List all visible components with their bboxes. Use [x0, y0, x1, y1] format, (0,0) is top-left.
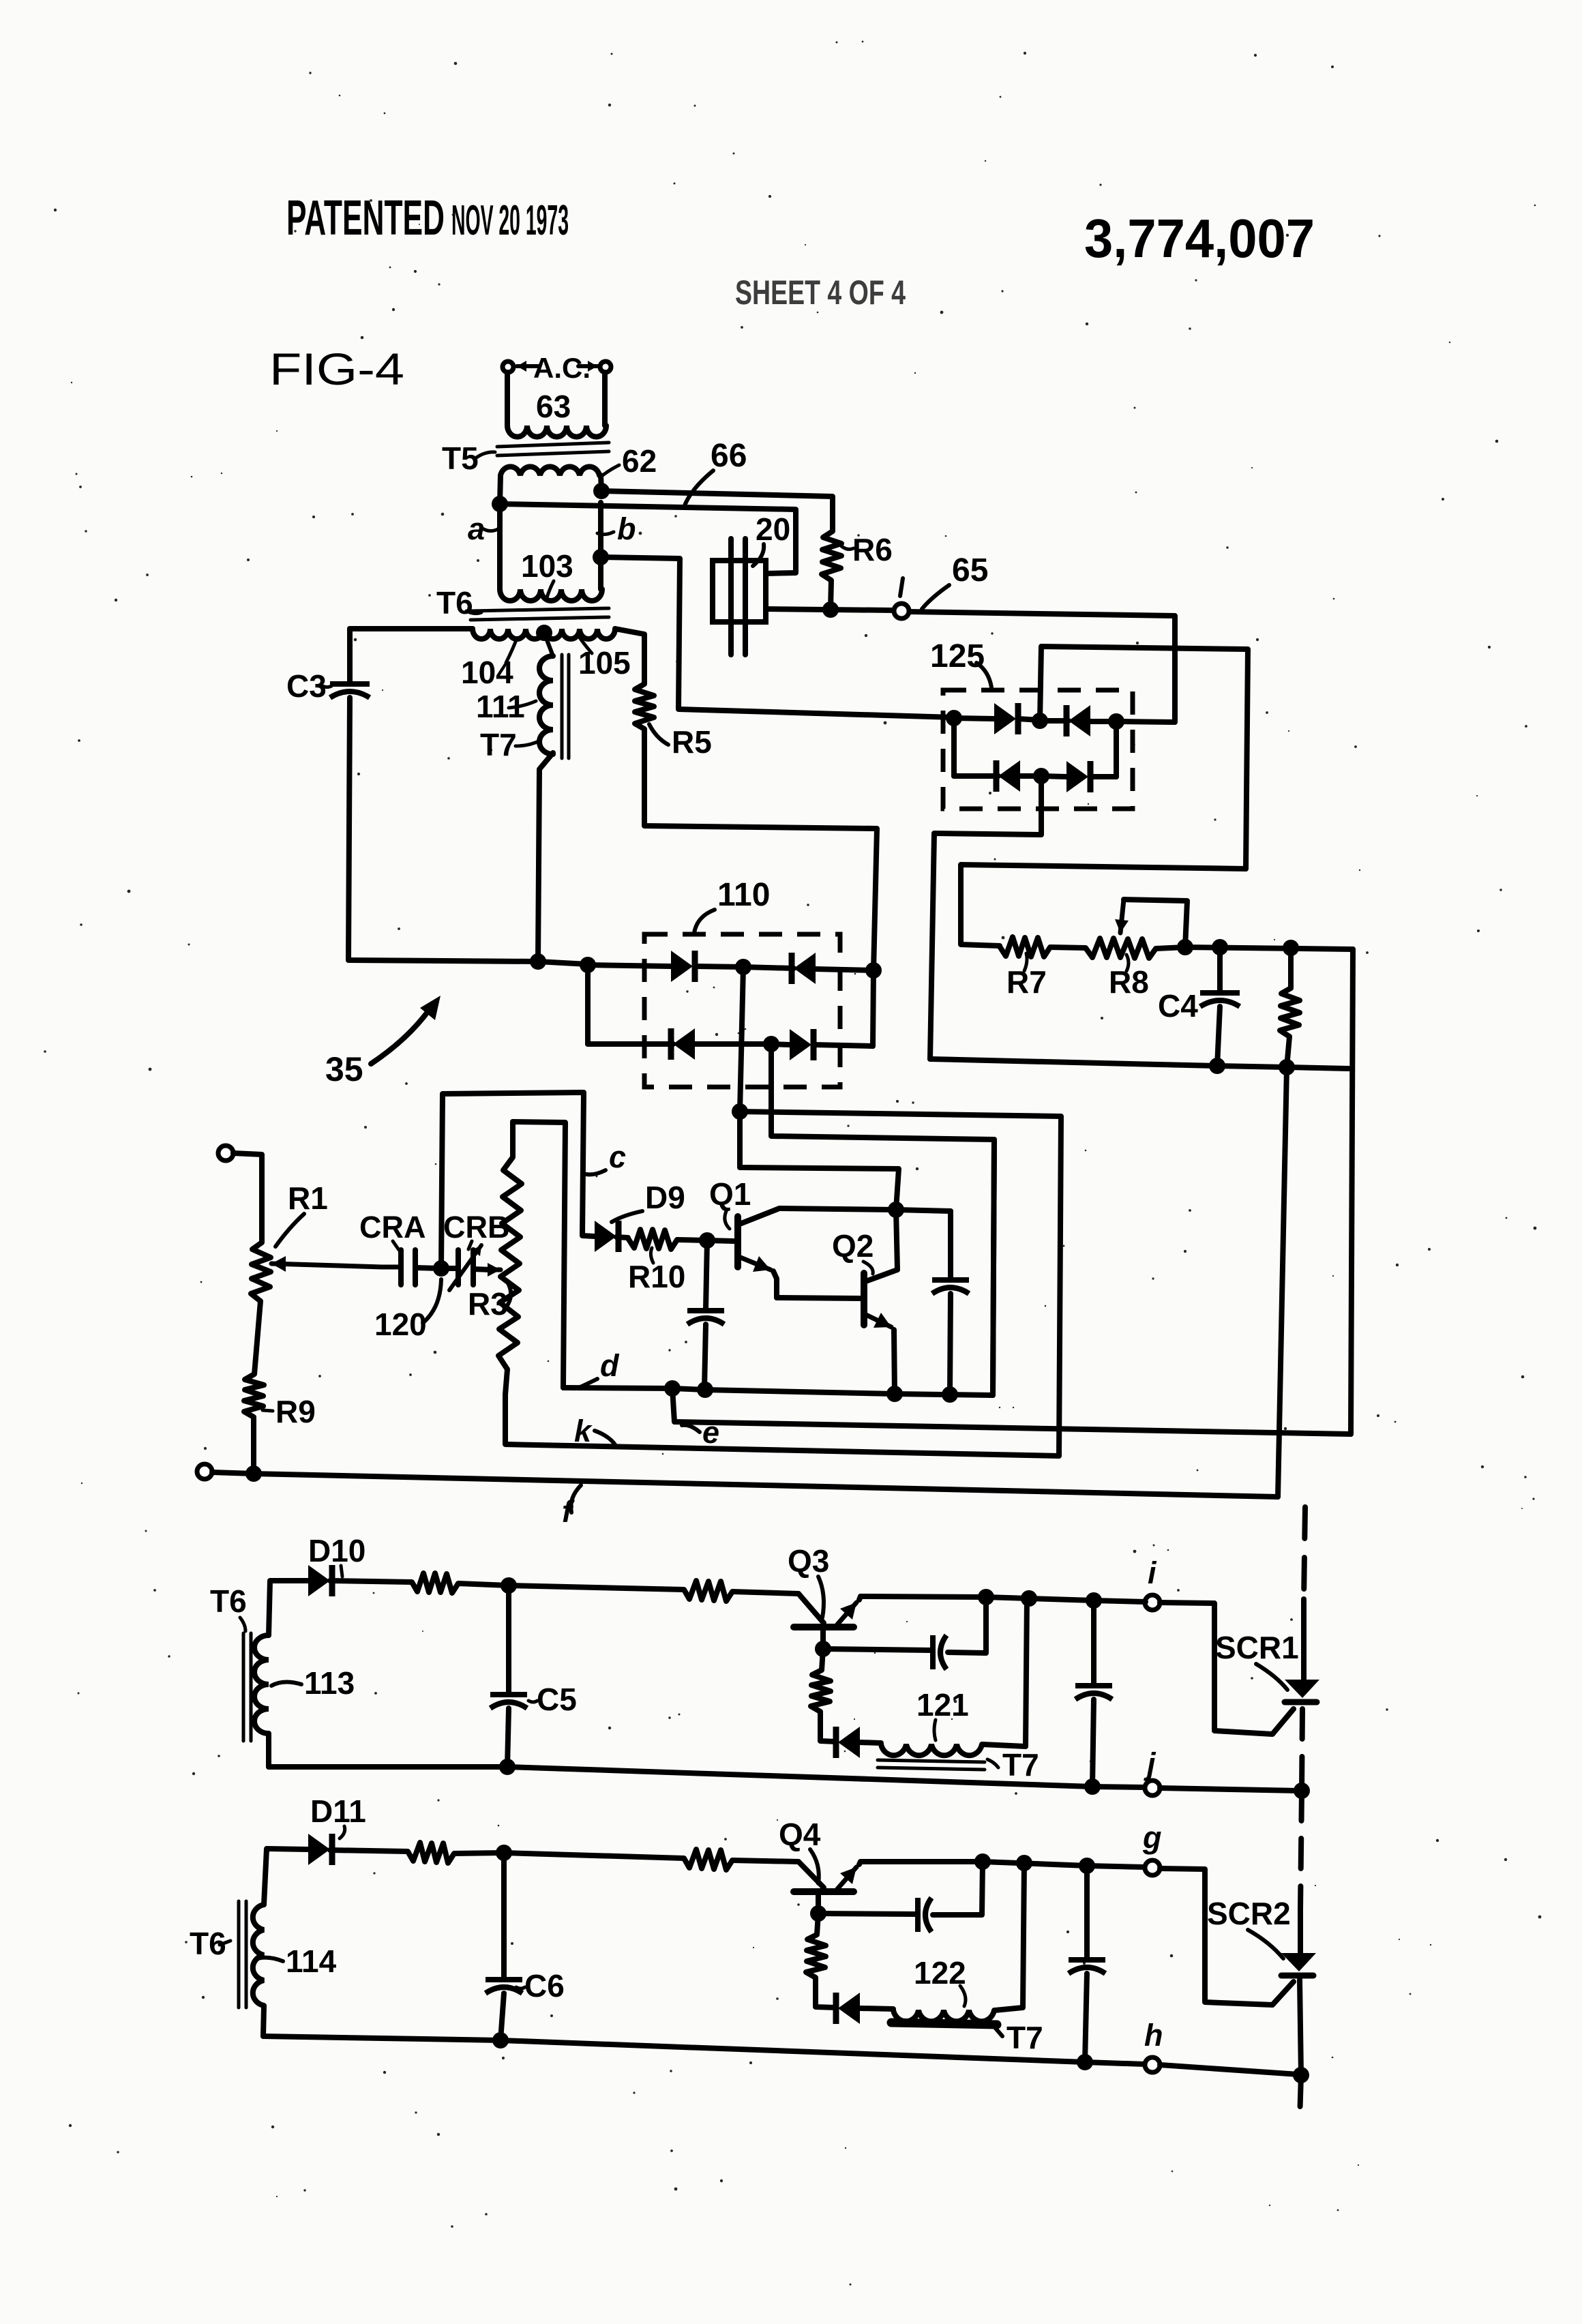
- node CRA CRB junction: [433, 1260, 449, 1277]
- winding 121 of T7: [881, 1598, 1027, 1755]
- diode bridge110 bottom-left: [588, 1028, 695, 1060]
- terminal g: [1145, 1860, 1160, 1875]
- svg-text:SCR2: SCR2: [1207, 1896, 1291, 1931]
- label k: [574, 1414, 616, 1448]
- node cap-g bottom: [1077, 2054, 1093, 2070]
- resistor R8 potentiometer: [1086, 938, 1156, 958]
- label 63: [536, 389, 571, 424]
- diode bridge125 top-left: [954, 703, 1018, 734]
- node bridge 110 left: [580, 957, 596, 973]
- label Q1: [709, 1176, 751, 1229]
- resistor R5: [635, 684, 877, 970]
- svg-text:PATENTED: PATENTED: [286, 191, 445, 245]
- terminal lower left: [197, 1464, 212, 1479]
- wire Q1 emitter to Q2 base: [777, 1298, 861, 1298]
- header patent date stamp: [286, 191, 569, 245]
- label d: [577, 1348, 620, 1388]
- capacitor Q4 feedback: [818, 1862, 983, 1932]
- header sheet number: [735, 273, 906, 312]
- wire bridge110 left vertical: [585, 965, 591, 1044]
- svg-text:SCR1: SCR1: [1215, 1630, 1299, 1665]
- label 105: [578, 636, 631, 681]
- svg-text:120: 120: [374, 1307, 427, 1342]
- winding 114 of T6: [253, 1849, 308, 2036]
- label T7 section2: [994, 2020, 1043, 2055]
- winding 122 of T7: [893, 1863, 1024, 2021]
- terminal A.C. left: [503, 361, 513, 372]
- diode D10: [308, 1565, 412, 1596]
- resistor R7: [1000, 937, 1050, 957]
- label 20: [753, 511, 790, 566]
- resistor R9: [244, 1374, 264, 1417]
- diode bridge110 top-left: [588, 951, 695, 982]
- svg-text:105: 105: [578, 645, 631, 681]
- svg-text:D11: D11: [310, 1793, 366, 1829]
- label D10: [308, 1533, 365, 1577]
- svg-text:i: i: [1148, 1555, 1157, 1590]
- label SCR2: [1207, 1896, 1291, 1958]
- wire Q3 emitter to i: [861, 1596, 986, 1597]
- label 35 with arrow: [325, 996, 441, 1088]
- svg-text:125: 125: [930, 638, 985, 674]
- winding 104 of T6: [350, 629, 543, 639]
- label D11: [310, 1793, 366, 1838]
- diode gate1: [836, 1727, 881, 1758]
- winding 111 of T7: [538, 633, 553, 962]
- SCR1: [1285, 1599, 1319, 1702]
- wire section2 top rail: [983, 1862, 1145, 1867]
- node R8 wiper join: [1177, 939, 1193, 955]
- wire R9 to f: [251, 1417, 256, 1474]
- svg-text:c: c: [609, 1139, 626, 1174]
- core T6: [471, 608, 609, 620]
- header patent number: [1084, 208, 1315, 269]
- wiper of R1: [271, 1256, 382, 1272]
- node C4 bottom: [1209, 1058, 1225, 1074]
- node d emitter: [886, 1386, 903, 1402]
- node C6 top: [496, 1845, 512, 1861]
- resistor right of C4: [1280, 948, 1300, 1067]
- wire R8 output: [1156, 947, 1353, 949]
- dashed bus SCR1 cathode: [1302, 1709, 1302, 1791]
- node bridge 110 right: [865, 962, 882, 979]
- capacitor at Q2 collector: [896, 1210, 969, 1395]
- winding 103 of T6: [500, 503, 602, 601]
- core T6 section2: [239, 1901, 246, 2008]
- wire e: [672, 1388, 1351, 1434]
- label A.C. with arrows: [517, 352, 597, 384]
- diode gate2: [836, 1993, 893, 2024]
- core T7 section2: [891, 2023, 997, 2025]
- dashed bus between j and SCR2: [1300, 1791, 1302, 1909]
- label R8: [1109, 955, 1149, 1000]
- wire g to SCR2 gate: [1160, 1868, 1294, 2005]
- label T7 section1: [987, 1747, 1039, 1783]
- wire rail to bridge 110: [348, 960, 588, 964]
- node cap-i top: [1086, 1592, 1102, 1609]
- wire bridge110 center vertical: [740, 967, 743, 1112]
- svg-text:103: 103: [521, 548, 573, 584]
- label 103: [521, 548, 573, 600]
- label b: [597, 511, 636, 546]
- wire i to SCR1 gate: [1094, 1600, 1294, 1734]
- label j: [1144, 1746, 1156, 1781]
- node center tap of T6 secondary: [536, 625, 552, 641]
- wire 65: [766, 609, 1175, 722]
- svg-text:T7: T7: [1006, 2020, 1043, 2055]
- svg-text:110: 110: [717, 877, 770, 913]
- label C5: [528, 1682, 577, 1717]
- node bridge 110 top-mid: [695, 959, 751, 975]
- label C6: [516, 1968, 565, 2003]
- diode bridge125 top-right: [1040, 705, 1116, 736]
- label C3: [286, 668, 331, 704]
- wire section2 bottom rail h: [263, 2036, 1145, 2064]
- wire 125 bottom-mid to rail: [930, 776, 1041, 1059]
- svg-text:k: k: [574, 1414, 593, 1448]
- wire Q2 collector: [896, 1210, 897, 1270]
- node at a junction: [492, 496, 508, 512]
- wire h to bus: [1160, 2065, 1298, 2074]
- terminal upper left: [218, 1146, 233, 1161]
- wire 66 upper: [601, 491, 833, 531]
- winding 62 of T5: [500, 466, 601, 504]
- wire to second resistor s2: [504, 1853, 684, 1858]
- svg-text:3,774,007: 3,774,007: [1084, 208, 1315, 269]
- svg-text:Q1: Q1: [709, 1176, 751, 1212]
- label g: [1142, 1820, 1162, 1855]
- label 110: [694, 877, 770, 933]
- svg-text:g: g: [1142, 1820, 1162, 1855]
- svg-text:T7: T7: [1002, 1747, 1039, 1783]
- label R1: [275, 1180, 328, 1247]
- label 121: [916, 1687, 969, 1740]
- node RX bottom: [1279, 1059, 1295, 1075]
- svg-text:122: 122: [914, 1955, 966, 1991]
- resistor in series D11: [408, 1843, 504, 1863]
- svg-text:e: e: [702, 1415, 719, 1450]
- label T5: [442, 441, 495, 476]
- wire R7 to R8: [1050, 947, 1086, 948]
- label 114: [258, 1943, 337, 1979]
- svg-text:C4: C4: [1158, 988, 1198, 1024]
- node C5 bottom: [499, 1759, 516, 1775]
- label Q3: [788, 1543, 829, 1618]
- transistor Q2: [864, 1270, 897, 1394]
- SCR2: [1281, 1909, 1316, 2075]
- label T6: [436, 585, 481, 621]
- label CRB: [443, 1210, 510, 1249]
- transistor Q3: [794, 1594, 861, 1627]
- resistor R6: [822, 531, 841, 610]
- node Q3 collector: [815, 1641, 831, 1657]
- svg-text:CRA: CRA: [359, 1210, 426, 1245]
- wire Q4 collector: [816, 1892, 821, 1913]
- label e: [682, 1415, 719, 1450]
- label 62: [600, 443, 657, 479]
- node b lower junction: [593, 549, 609, 565]
- wire k path: [505, 1112, 1061, 1456]
- dashed bus tail: [1300, 2075, 1301, 2119]
- capacitor Q3 feedback: [823, 1597, 986, 1669]
- potentiometer R1: [251, 1242, 271, 1301]
- resistor before Q3: [684, 1581, 799, 1601]
- diode D11: [308, 1834, 408, 1865]
- figure label FIG-4: [269, 344, 404, 394]
- node RX top: [1283, 940, 1299, 956]
- label a: [468, 511, 498, 546]
- label SCR1: [1215, 1630, 1299, 1690]
- wire top rail section1 nodes: [986, 1597, 1094, 1600]
- svg-text:SHEET 4 OF 4: SHEET 4 OF 4: [735, 273, 906, 312]
- core T7 vertical: [562, 655, 569, 758]
- label Q4: [779, 1817, 821, 1883]
- label 111: [476, 689, 536, 724]
- node 122 return: [1016, 1855, 1032, 1871]
- node on wire 65: [822, 601, 839, 618]
- node 121 return: [1021, 1590, 1037, 1607]
- label D9: [612, 1180, 685, 1222]
- label C4: [1158, 988, 1198, 1024]
- resistor R3: [498, 1122, 522, 1395]
- node R9 bottom on f: [245, 1465, 262, 1482]
- bridge 125 dashed box: [943, 690, 1133, 809]
- capacitor CRB variable: [441, 1245, 491, 1290]
- terminal l on wire 65: [894, 578, 909, 619]
- svg-text:114: 114: [286, 1943, 337, 1979]
- svg-text:NOV 20 1973: NOV 20 1973: [451, 197, 569, 244]
- node cap-g top: [1079, 1858, 1095, 1874]
- label T6 section2: [190, 1926, 230, 1961]
- diode bridge125 bottom-right: [1041, 761, 1116, 792]
- node d branch e: [664, 1380, 681, 1397]
- svg-text:65: 65: [952, 552, 988, 589]
- label 65: [922, 552, 988, 609]
- transistor Q1: [738, 1208, 896, 1298]
- label R7: [1006, 953, 1047, 1000]
- capacitor before g: [1069, 1866, 1105, 2062]
- node h on bus: [1293, 2067, 1309, 2083]
- wire Q4 emitter to g: [861, 1859, 983, 1864]
- wire bridge110 right vertical: [873, 970, 874, 1046]
- wire to second resistor: [509, 1585, 684, 1590]
- wire Q3 collector: [820, 1627, 826, 1649]
- svg-text:CRB: CRB: [443, 1210, 510, 1245]
- bridge 110 dashed box: [644, 934, 840, 1087]
- svg-text:Q3: Q3: [788, 1543, 829, 1579]
- svg-text:R5: R5: [672, 724, 712, 760]
- svg-text:T6: T6: [210, 1583, 247, 1619]
- resistor Q4 bias: [806, 1913, 836, 2008]
- node at b-top junction: [593, 483, 610, 499]
- svg-text:D9: D9: [645, 1180, 685, 1215]
- arrow CRB to R3: [488, 1263, 501, 1277]
- label R10: [628, 1248, 685, 1294]
- terminal j: [1145, 1781, 1160, 1796]
- wire R1 to R9: [254, 1301, 260, 1374]
- diode bridge125 bottom-left: [954, 760, 1020, 792]
- wire RX to f: [1278, 1067, 1287, 1497]
- svg-text:20: 20: [756, 511, 790, 547]
- node Q1 collector: [888, 1202, 904, 1218]
- node C6 bottom: [492, 2032, 509, 2049]
- core T6 section1: [243, 1633, 251, 1741]
- svg-text:d: d: [600, 1348, 620, 1383]
- label 120: [374, 1279, 441, 1342]
- capacitor at Q1 base: [687, 1240, 724, 1388]
- node Q4 emitter top: [974, 1853, 991, 1870]
- diode bridge110 top-right: [743, 953, 874, 984]
- wire section1 bottom rail j: [269, 1767, 1146, 1787]
- label i: [1148, 1555, 1157, 1590]
- node bridge 125 right: [1108, 713, 1124, 730]
- wire f: [212, 1472, 1278, 1497]
- label 104: [461, 638, 517, 690]
- svg-text:113: 113: [304, 1665, 355, 1701]
- node Q4 collector: [810, 1905, 826, 1922]
- node cap-i bottom: [1084, 1778, 1101, 1795]
- wire bridge125 right vertical: [1114, 721, 1119, 777]
- svg-text:63: 63: [536, 389, 571, 424]
- svg-text:C6: C6: [524, 1968, 565, 2003]
- wire j to bus: [1160, 1788, 1299, 1791]
- node d cap1: [697, 1382, 713, 1398]
- svg-text:T6: T6: [436, 585, 473, 621]
- node Q1 base: [699, 1232, 715, 1249]
- node T7 bottom on rail: [530, 953, 546, 970]
- wire b to bridge 125: [601, 557, 954, 717]
- svg-text:D10: D10: [308, 1533, 365, 1568]
- label R6: [841, 532, 893, 567]
- label c: [586, 1139, 626, 1174]
- node j on bus: [1294, 1783, 1310, 1799]
- node bridge 110 bottom-mid: [695, 1036, 779, 1052]
- svg-text:T7: T7: [480, 727, 517, 762]
- svg-text:R1: R1: [288, 1180, 328, 1216]
- wire d: [563, 1139, 994, 1395]
- label 113: [271, 1665, 355, 1701]
- node bridge 125 bottom-mid: [1020, 768, 1049, 784]
- node bridge 125 left: [946, 710, 962, 726]
- svg-text:R10: R10: [628, 1259, 685, 1294]
- node C4 top: [1212, 939, 1228, 955]
- capacitor C3: [330, 629, 370, 960]
- winding 113 of T6: [254, 1581, 308, 1767]
- svg-text:R9: R9: [275, 1394, 316, 1429]
- wire R8 output vertical to e: [1351, 949, 1353, 1434]
- resistor in series D10: [412, 1573, 509, 1593]
- svg-text:35: 35: [325, 1050, 363, 1088]
- wire R3 top hook to d: [513, 1122, 565, 1388]
- svg-text:R6: R6: [852, 532, 893, 567]
- device 20 electrodes: [713, 539, 766, 655]
- terminal i: [1145, 1595, 1160, 1610]
- svg-text:Q4: Q4: [779, 1817, 821, 1852]
- capacitor C4: [1200, 947, 1240, 1066]
- svg-text:121: 121: [916, 1687, 969, 1723]
- node Q3 emitter top: [978, 1589, 994, 1605]
- label 66: [684, 438, 747, 507]
- svg-text:b: b: [617, 511, 636, 546]
- wire return rail of 125: [930, 1059, 1349, 1069]
- transistor Q4: [794, 1862, 861, 1892]
- label f: [562, 1485, 581, 1529]
- wire to R1: [233, 1153, 262, 1242]
- svg-text:66: 66: [711, 438, 747, 474]
- winding 63 of T5: [507, 372, 606, 437]
- label 122: [914, 1955, 966, 2006]
- terminal A.C. right: [600, 361, 611, 372]
- core T7 section1: [878, 1760, 985, 1770]
- resistor R10: [628, 1230, 734, 1249]
- resistor before Q4: [684, 1849, 799, 1870]
- label T6 section1: [210, 1583, 247, 1631]
- label R3: [468, 1282, 511, 1322]
- label CRA: [359, 1210, 426, 1250]
- node 121 on top rail: [1021, 1590, 1037, 1607]
- capacitor CRA: [382, 1250, 441, 1285]
- wire c hook: [441, 1092, 595, 1268]
- label R9: [263, 1394, 316, 1429]
- capacitor C5: [490, 1585, 527, 1767]
- svg-text:C5: C5: [537, 1682, 577, 1717]
- label h: [1144, 2018, 1163, 2053]
- wire 125 top-mid to R7R8 frame: [1040, 646, 1248, 869]
- wire bridge110 bottom-mid to d-right: [771, 1044, 994, 1395]
- terminal h: [1145, 2057, 1160, 2072]
- wire bridge125 left vertical: [951, 718, 957, 776]
- svg-text:Q2: Q2: [832, 1228, 874, 1264]
- wire 66 lower: [500, 504, 796, 573]
- label Q2: [832, 1228, 874, 1274]
- core T5: [497, 443, 609, 456]
- wire collector feed: [740, 1112, 899, 1210]
- label R5: [649, 724, 712, 760]
- svg-text:FIG-4: FIG-4: [269, 344, 404, 394]
- label 125: [930, 638, 991, 687]
- diode D9: [595, 1221, 628, 1252]
- wiper of R8: [1115, 899, 1187, 947]
- diode bridge110 bottom-right: [771, 1029, 873, 1060]
- svg-text:T5: T5: [442, 441, 479, 476]
- dashed bus upper: [1304, 1507, 1305, 1599]
- wire R7R8 top frame: [961, 865, 1246, 946]
- node d cap2: [942, 1386, 958, 1403]
- resistor Q3 bias: [811, 1649, 836, 1742]
- capacitor before i: [1075, 1600, 1112, 1787]
- node bridge110 center tap: [732, 1103, 748, 1120]
- svg-text:62: 62: [622, 443, 657, 479]
- node bridge 125 top-mid: [1018, 713, 1048, 729]
- capacitor C6: [486, 1853, 522, 2040]
- node C5 top: [501, 1577, 517, 1594]
- winding 105 of T6: [544, 629, 644, 684]
- label T7: [480, 727, 540, 762]
- svg-text:h: h: [1144, 2018, 1163, 2053]
